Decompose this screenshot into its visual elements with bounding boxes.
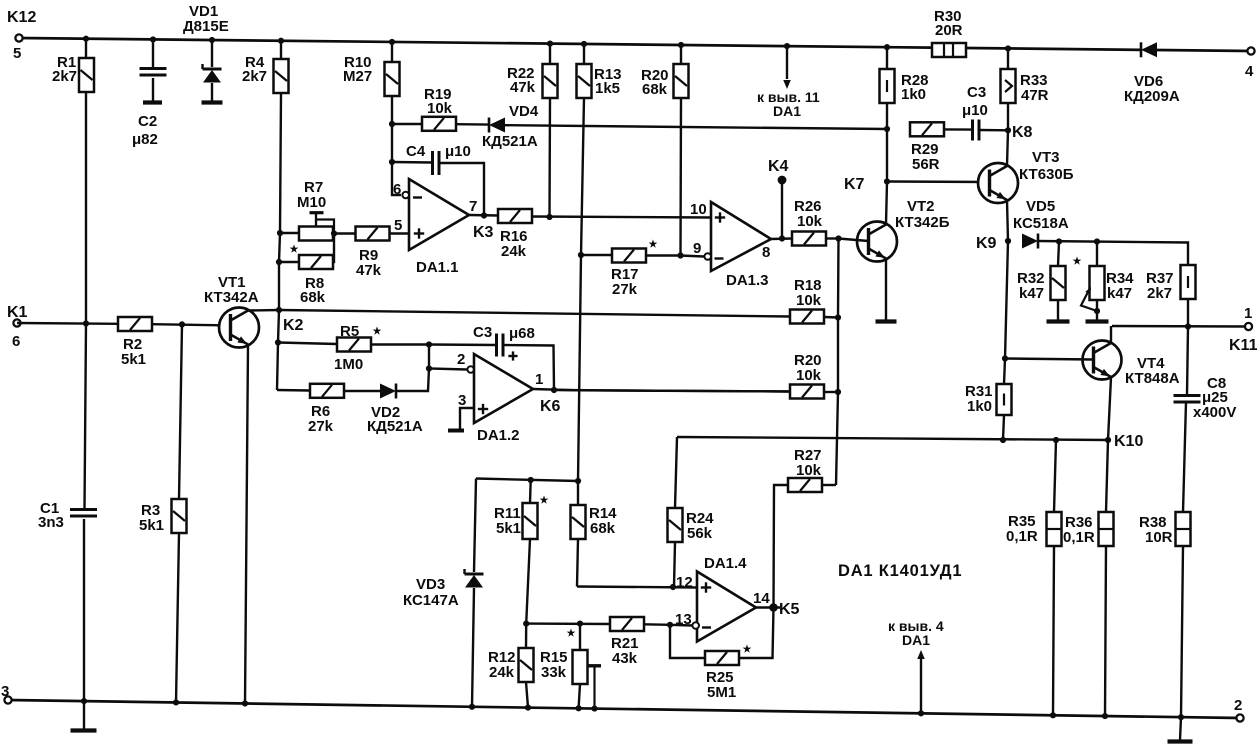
svg-text:μ68: μ68 [509,325,535,342]
svg-text:КТ630Б: КТ630Б [1019,166,1074,183]
svg-text:43k: 43k [612,650,638,667]
svg-text:DA1.1: DA1.1 [416,259,459,276]
svg-text:4: 4 [1245,63,1254,80]
svg-text:27k: 27k [612,281,638,298]
svg-text:47k: 47k [356,262,382,279]
svg-text:7: 7 [469,198,477,215]
svg-text:КД521А: КД521А [482,133,538,150]
svg-text:КС147А: КС147А [403,592,459,609]
svg-text:k47: k47 [1019,285,1044,302]
svg-text:3: 3 [458,392,466,409]
svg-text:VD5: VD5 [1026,198,1055,215]
svg-text:x400V: x400V [1193,404,1236,421]
svg-text:5k1: 5k1 [139,517,164,534]
svg-text:1k0: 1k0 [901,86,926,103]
svg-text:K1: K1 [7,304,28,321]
svg-text:K5: K5 [779,601,800,618]
svg-text:68k: 68k [300,289,326,306]
svg-text:10k: 10k [796,367,822,384]
svg-text:10R: 10R [1145,529,1173,546]
svg-text:2k7: 2k7 [1147,285,1172,302]
svg-text:Д815Е: Д815Е [183,18,229,35]
svg-text:3n3: 3n3 [38,514,64,531]
svg-text:2: 2 [1234,697,1242,714]
svg-text:2k7: 2k7 [242,68,267,85]
svg-text:47R: 47R [1021,87,1049,104]
svg-text:33k: 33k [541,664,567,681]
svg-text:1: 1 [1244,305,1252,322]
svg-text:68k: 68k [642,81,668,98]
svg-text:КТ342А: КТ342А [204,289,259,306]
svg-text:M10: M10 [297,194,326,211]
svg-text:8: 8 [762,244,770,261]
svg-text:КД209А: КД209А [1124,88,1180,105]
svg-text:2: 2 [457,351,465,368]
svg-text:КД521А: КД521А [367,418,423,435]
svg-text:9: 9 [693,240,701,257]
svg-text:DA1 К1401УД1: DA1 К1401УД1 [838,562,962,580]
svg-text:10: 10 [690,201,707,218]
svg-text:2k7: 2k7 [52,68,77,85]
svg-text:VT2: VT2 [907,198,935,215]
svg-text:14: 14 [753,590,770,607]
svg-text:VD4: VD4 [509,103,539,120]
svg-text:K2: K2 [283,317,304,334]
svg-text:6: 6 [393,181,401,198]
svg-text:C3: C3 [967,84,986,101]
svg-text:5M1: 5M1 [707,684,736,701]
svg-text:0,1R: 0,1R [1006,528,1038,545]
svg-text:DA1: DA1 [902,632,930,648]
svg-text:24k: 24k [489,664,515,681]
svg-text:μ82: μ82 [132,131,158,148]
svg-text:1: 1 [535,371,543,388]
svg-text:0,1R: 0,1R [1063,529,1095,546]
svg-text:1k0: 1k0 [967,398,992,415]
svg-text:K4: K4 [768,158,789,175]
svg-text:M27: M27 [343,68,372,85]
svg-text:DA1: DA1 [773,103,801,119]
svg-text:10k: 10k [796,462,822,479]
svg-text:K12: K12 [7,9,36,26]
svg-text:3: 3 [1,683,9,700]
svg-text:C4: C4 [406,143,426,160]
svg-text:K8: K8 [1012,124,1033,141]
svg-text:5k1: 5k1 [496,520,521,537]
svg-text:5: 5 [13,45,21,62]
svg-text:6: 6 [12,333,20,350]
svg-text:μ10: μ10 [962,102,988,119]
svg-text:10k: 10k [796,292,822,309]
svg-text:DA1.4: DA1.4 [704,555,747,572]
svg-text:K10: K10 [1114,433,1143,450]
svg-text:K3: K3 [473,224,494,241]
svg-text:C2: C2 [138,113,157,130]
svg-text:5k1: 5k1 [121,351,146,368]
svg-text:20R: 20R [935,22,963,39]
svg-text:13: 13 [675,611,692,628]
svg-text:C3: C3 [473,324,492,341]
svg-text:DA1.3: DA1.3 [726,272,769,289]
svg-text:10k: 10k [797,213,823,230]
svg-text:VD3: VD3 [416,576,445,593]
svg-text:10k: 10k [427,100,453,117]
svg-text:КТ342Б: КТ342Б [895,214,950,231]
svg-text:VT3: VT3 [1032,149,1060,166]
svg-text:R5: R5 [340,323,359,340]
svg-text:КТ848А: КТ848А [1125,370,1180,387]
svg-text:68k: 68k [590,520,616,537]
svg-text:1k5: 1k5 [595,80,620,97]
svg-text:K7: K7 [844,176,865,193]
svg-text:K6: K6 [540,398,561,415]
svg-text:56k: 56k [687,525,713,542]
svg-text:DA1.2: DA1.2 [477,427,520,444]
svg-text:24k: 24k [501,243,527,260]
svg-text:1M0: 1M0 [334,356,363,373]
svg-text:КС518А: КС518А [1013,215,1069,232]
svg-text:K9: K9 [976,235,997,252]
svg-text:27k: 27k [308,418,334,435]
svg-text:μ10: μ10 [445,143,471,160]
svg-text:12: 12 [676,574,693,591]
svg-text:K11: K11 [1229,337,1258,354]
svg-text:k47: k47 [1107,285,1132,302]
svg-text:47k: 47k [510,79,536,96]
svg-text:56R: 56R [912,156,940,173]
svg-text:5: 5 [394,217,402,234]
